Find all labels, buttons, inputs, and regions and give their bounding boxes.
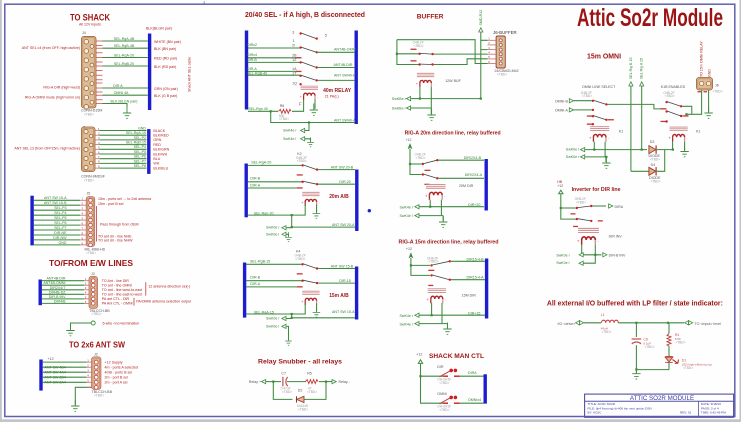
relay coil K1 coil left [589, 127, 610, 142]
svg-text:+12: +12 [416, 353, 422, 357]
wire buf arr r wire [411, 98, 420, 100]
svg-text:TO <input> level: TO <input> level [695, 322, 722, 326]
svg-text:BUFFER: BUFFER [417, 14, 444, 21]
connector J4 [82, 36, 97, 108]
svg-text:TO 15m OMNI RELAY: TO 15m OMNI RELAY [700, 41, 704, 77]
arrow omni b arr [569, 99, 573, 103]
svg-text:+12: +12 [557, 184, 563, 188]
svg-text:ANT SW 20-B: ANT SW 20-B [331, 165, 354, 169]
svg-text:SEL-P6: SEL-P6 [54, 221, 66, 225]
svg-text:K1: K1 [696, 130, 700, 134]
bus K2 left [244, 164, 247, 218]
switch contact omni sw1 [592, 100, 594, 102]
svg-text:TO ant - line east-to-west: TO ant - line east-to-west [102, 293, 142, 297]
svg-text:SwK4e r: SwK4e r [400, 314, 414, 318]
ground 20m gnd [439, 216, 447, 228]
J2 pin notes [105, 360, 139, 384]
svg-text:DIR INV: DIR INV [609, 235, 623, 239]
switch contact sw 2040 r3 [299, 75, 301, 77]
switch contact inv sw1 [576, 207, 578, 209]
wire inv rail [561, 194, 576, 219]
switch contact 20m sw2 [422, 173, 424, 175]
svg-text:J6: J6 [715, 83, 719, 87]
svg-text:20m A/B: 20m A/B [329, 194, 349, 200]
wire snub out [319, 381, 332, 383]
wire lp gnd stem [635, 369, 637, 372]
svg-text:<TBD>: <TBD> [297, 159, 307, 163]
LED D1 [665, 357, 673, 362]
svg-text:2m - port A sel: 2m - port A sel [105, 381, 128, 385]
contact stub K2 nc1 [297, 174, 303, 175]
wire 20m r1 wire [419, 206, 484, 208]
J2 gnd stub [87, 386, 92, 388]
contact stub K4 nc2 [297, 286, 303, 287]
switch contact inv sw2 [576, 218, 578, 220]
svg-text:SwK0e r: SwK0e r [556, 253, 570, 257]
J4 pin stubs [96, 41, 103, 104]
bus J5 left [30, 196, 33, 246]
svg-text:Shack ANT SEL cable: Shack ANT SEL cable [188, 57, 192, 92]
wire shack sw1 out [460, 375, 484, 377]
svg-text:SEL-P5: SEL-P5 [134, 150, 146, 154]
svg-text:DIR2X4/T: DIR2X4/T [50, 286, 67, 290]
contact stub 2040 r3 nc [296, 71, 302, 72]
svg-text:DIR: DIR [437, 365, 444, 369]
svg-text:<TBD>: <TBD> [665, 94, 675, 98]
ground gnd 2040b [307, 137, 314, 146]
io drive arrow [576, 321, 584, 325]
svg-text:ANT SEL c4 (from OFF, high=act: ANT SEL c4 (from OFF, high=active) [22, 46, 80, 50]
arrow sw l K2 [282, 232, 286, 236]
wire buf sw2 out [434, 59, 488, 65]
svg-text:SwKBe l: SwKBe l [392, 107, 406, 111]
bus shack man [484, 374, 487, 403]
svg-text:+12 Supply: +12 Supply [105, 360, 123, 364]
arrow inv dirb arr [603, 253, 607, 257]
wire DIR-A 2040 [248, 70, 300, 72]
arrow omni arr l [581, 148, 585, 152]
contact stub buf nc2 [411, 60, 417, 61]
svg-text:ANT SW40-A: ANT SW40-A [334, 118, 356, 122]
omni dot3 [592, 123, 594, 125]
relay coil K4 coil [301, 291, 320, 305]
svg-text:SEL-RgB-15: SEL-RgB-15 [126, 141, 146, 145]
svg-text:ANT SW 15-B: ANT SW 15-B [331, 264, 354, 268]
svg-text:DIR-B INV: DIR-B INV [609, 254, 626, 258]
svg-text:SEL-P3: SEL-P3 [54, 206, 66, 210]
wire 15m r1 wire [419, 314, 485, 316]
wire C6 bottom [635, 345, 637, 369]
svg-text:2I: 2I [292, 44, 295, 48]
svg-text:PA Ant CTL - OMNI: PA Ant CTL - OMNI [102, 301, 133, 305]
connector J6 omni [697, 78, 713, 91]
junction snub ja [272, 381, 274, 383]
svg-text:D3: D3 [650, 140, 655, 144]
wire inv coil right [594, 245, 596, 255]
switch contact omni sw2 [592, 115, 594, 117]
contact stub 15m nc2 [428, 285, 433, 286]
junction K2 ja [291, 214, 293, 216]
arrow omni arr r [581, 155, 585, 159]
svg-text:SEL-P4: SEL-P4 [54, 211, 66, 215]
wire k1b row1 [682, 106, 692, 114]
svg-text:Inverter for DIR line: Inverter for DIR line [572, 187, 621, 193]
connector J2 [92, 357, 101, 389]
contact stub K2 nc2 [297, 187, 303, 188]
ground K4 gnd [313, 307, 321, 318]
svg-text:<TBD>: <TBD> [92, 312, 102, 316]
svg-text:<TBD>: <TBD> [94, 393, 104, 397]
svg-text:WHITE (BN pair): WHITE (BN pair) [154, 40, 181, 44]
wire buf bottom [420, 98, 481, 100]
svg-text:2m - port B sel: 2m - port B sel [105, 375, 129, 379]
diode D2 [297, 396, 305, 402]
switch contact sw 2040 r1 [299, 46, 301, 48]
bus J3 left [39, 280, 42, 306]
svg-text:SEL-P8: SEL-P8 [134, 164, 146, 168]
wire 20m sw1 out [438, 159, 484, 161]
svg-text:SwK0e r: SwK0e r [566, 155, 580, 159]
arrow 20m arr l [415, 214, 419, 218]
svg-text:<TBD>: <TBD> [307, 390, 317, 394]
wire DIR-20 [318, 183, 355, 185]
wire 15m sw1 out [451, 260, 485, 262]
wire K1L right leg [604, 142, 607, 162]
svg-text:TO Ant - line DIR: TO Ant - line DIR [102, 279, 129, 283]
wire ANT SW 15-B [318, 268, 355, 270]
wire DIR-15 [318, 282, 355, 284]
svg-text:D2: D2 [298, 389, 303, 393]
svg-text:PA/OMNI antenna selection outp: PA/OMNI antenna selection output [136, 299, 191, 303]
J6-BUFFER pin stubs [488, 37, 497, 64]
svg-text:DIR-B: DIR-B [250, 276, 260, 280]
arrow omni a arr [569, 108, 573, 112]
svg-text:SMD-R12: SMD-R12 [479, 10, 483, 26]
wire D4 out [656, 150, 665, 172]
contact stub 20m nc2 [425, 184, 430, 185]
svg-text:ANT SW 4B4: ANT SW 4B4 [45, 365, 66, 369]
svg-text:DIR+20: DIR+20 [468, 203, 480, 207]
J1 pin stubs [95, 127, 100, 169]
junction K2 jb [291, 226, 293, 228]
wire K2 coil right gnd [316, 205, 318, 213]
wire swl2040 [305, 139, 311, 142]
wire K1L left leg [593, 142, 595, 150]
wire K4 r2 left [246, 280, 302, 282]
bus 2040 left [245, 31, 248, 110]
contact stub J6 stub2 [704, 91, 708, 92]
svg-text:15m OMNI: 15m OMNI [587, 54, 621, 61]
svg-text:ATTIC SO2R MODULE: ATTIC SO2R MODULE [630, 395, 694, 402]
svg-text:Relay +: Relay + [249, 380, 261, 384]
svg-text:TIME: 6:42:49 PM: TIME: 6:42:49 PM [701, 411, 726, 415]
wire snub in [266, 381, 281, 383]
wire swrK4 [286, 318, 292, 320]
svg-text:<TBD>: <TBD> [602, 330, 612, 334]
arrow sel b up [629, 82, 633, 86]
switch contact 20m sw1 [422, 163, 424, 165]
relay coil K1 coil right [668, 127, 688, 141]
resistor R6 [279, 109, 292, 113]
wire D4 wire [631, 170, 649, 172]
switch contact buf sw1 [418, 53, 420, 55]
arrow buf up [479, 28, 483, 32]
wire DIR-4 [248, 57, 300, 59]
io out arrow [685, 321, 693, 325]
svg-text:SEL Rig B 15: SEL Rig B 15 [629, 58, 633, 79]
svg-text:TO/FROM E/W LINES: TO/FROM E/W LINES [49, 259, 134, 268]
k1b dot3 [665, 120, 667, 122]
wire K4 coil right gnd [316, 303, 318, 311]
wire 15m sw2 out [451, 279, 485, 281]
arrow inv arr r [579, 253, 583, 257]
junction inv j1 [560, 207, 562, 209]
svg-text:DIR-NW: DIR-NW [53, 236, 67, 240]
wire 15m arr l wire [419, 323, 448, 325]
contact stub inv nc1 [571, 213, 576, 214]
arrow relay minus arrow [332, 380, 336, 384]
svg-text:SwK4e r: SwK4e r [283, 129, 297, 133]
wire shack rail [421, 364, 444, 403]
svg-text:Pass through from OEM: Pass through from OEM [100, 222, 139, 226]
svg-text:<TBD>: <TBD> [439, 381, 449, 385]
arrow buf arr l [406, 106, 410, 110]
svg-text:TO ant - line west-to-east: TO ant - line west-to-east [102, 288, 142, 292]
pushbutton DIR [444, 376, 449, 377]
svg-text:ANT4B-OMNI: ANT4B-OMNI [43, 281, 65, 285]
svg-text:All 12V inputs: All 12V inputs [79, 23, 101, 27]
svg-text:DIRA: DIRA [468, 371, 477, 375]
wire DIR-B 2040 [248, 61, 300, 63]
ground termination gnd [66, 324, 74, 336]
junction K4 ja [291, 313, 293, 315]
power +12 shack [418, 360, 422, 364]
diode D3 [649, 145, 656, 153]
wire K4 bottom [292, 314, 355, 318]
junction buf j1 [396, 53, 398, 55]
wire lp in [584, 322, 601, 324]
svg-text:BLK (RD pair): BLK (RD pair) [154, 65, 176, 69]
svg-text:DIR-NE: DIR-NE [54, 231, 67, 235]
wire ANT4B-OMNI [318, 51, 355, 53]
svg-text:SEL-P4: SEL-P4 [134, 145, 146, 149]
wire 20m rail [410, 149, 422, 175]
svg-text:SEL-RgA-20: SEL-RgA-20 [251, 160, 271, 164]
svg-text:<TBD>: <TBD> [651, 179, 661, 183]
svg-text:SHACK MAN CTL: SHACK MAN CTL [429, 353, 484, 360]
svg-text:<TBD>: <TBD> [84, 179, 94, 183]
junction inv j2 [594, 254, 596, 256]
wire omni swr wire [585, 156, 607, 158]
svg-text:DIR-A: DIR-A [250, 183, 260, 187]
wire omni swl wire [585, 149, 647, 151]
J2 wire labels [45, 365, 66, 384]
relay coil K2 coil [301, 192, 320, 206]
wire snub loop [273, 382, 326, 400]
wire D1 bottom [636, 362, 669, 369]
svg-text:SEL-RgB-20: SEL-RgB-20 [114, 62, 134, 66]
svg-text:2B: 2B [292, 54, 297, 58]
junction shack j1 [419, 375, 421, 377]
resistor R5 [305, 380, 318, 384]
svg-text:<TBD>: <TBD> [414, 44, 424, 48]
contact stub omni nc1 [587, 115, 593, 116]
arrow 20m arr r [415, 205, 419, 209]
svg-text:DIR-A: DIR-A [247, 67, 257, 71]
wire SEL Rig A 15 wire [641, 86, 643, 150]
resistor R4 [667, 334, 671, 347]
junction snub jb [325, 381, 327, 383]
svg-text:K1: K1 [619, 130, 623, 134]
relay coil K1 2040 [300, 86, 319, 100]
wire SEL-RgB-40 [248, 74, 300, 76]
svg-text:GRN: GRN [153, 138, 161, 142]
svg-text:<TBD>: <TBD> [439, 408, 449, 412]
svg-text:C7: C7 [281, 372, 286, 376]
bus 2040 right [355, 31, 358, 125]
svg-text:BLU: BLU [153, 157, 160, 161]
wire ANT4B-DIR [318, 67, 355, 69]
svg-text:DIRx4: DIRx4 [247, 53, 257, 57]
svg-text:+12: +12 [406, 247, 412, 251]
ground J4 shield [123, 107, 131, 119]
J3 pin notes [102, 279, 142, 305]
wire snub mid [287, 381, 306, 383]
svg-text:PA ant CTL - DIR: PA ant CTL - DIR [102, 297, 130, 301]
ground K2 gnd2 [285, 232, 292, 241]
svg-text:TO ant dir - rlse NHE: TO ant dir - rlse NHE [98, 234, 132, 238]
switch contact sw 2040 r2 [299, 61, 301, 63]
bracket J5 [96, 206, 98, 242]
wire swrK2 [286, 227, 292, 229]
wire J6 pin1 down [686, 90, 701, 114]
contact stub inv nc2 [598, 220, 603, 221]
bracket pa omni [133, 298, 135, 306]
wires bus to J5 [34, 197, 86, 246]
ground J2 gnd [71, 400, 79, 412]
svg-text:ANT4B-OMNI: ANT4B-OMNI [334, 48, 356, 52]
power +12 up 20m [408, 144, 412, 149]
svg-text:DIRx2: DIRx2 [247, 43, 257, 47]
svg-text:SEL-RgA-20: SEL-RgA-20 [114, 53, 134, 57]
svg-text:SwK0e r: SwK0e r [266, 226, 280, 230]
svg-text:BY: AC0C: BY: AC0C [588, 411, 603, 415]
wire K2 coil left [248, 205, 305, 216]
wire D3 out [656, 149, 673, 151]
wire 15m coil right [442, 303, 448, 328]
svg-text:OMNI 4A: OMNI 4A [114, 91, 129, 95]
wire K2 bottom [292, 215, 356, 227]
svg-text:GND: GND [138, 126, 146, 130]
svg-text:15m A/B: 15m A/B [329, 293, 349, 299]
svg-text:All external I/O buffered with: All external I/O buffered with LP filter… [547, 301, 723, 308]
wire inv arr l wire [583, 255, 595, 263]
wire 20m coil left [429, 200, 431, 207]
title block frame [585, 394, 734, 417]
connector J1 [82, 127, 96, 172]
svg-text:<TBD>: <TBD> [713, 90, 723, 94]
wire J2 gnd wire [75, 387, 91, 405]
junction lp j1 [635, 322, 637, 324]
wire K1R left leg [672, 142, 674, 150]
contact stub omni nc3 [587, 124, 593, 125]
relay coil 20m coil [425, 184, 446, 199]
svg-text:ANT SW40-B: ANT SW40-B [334, 74, 356, 78]
svg-text:<TBD>: <TBD> [582, 94, 592, 98]
svg-text:ANT SW 4A4: ANT SW 4A4 [45, 370, 66, 374]
svg-text:DIRA: DIRA [615, 205, 624, 209]
junction omni jd [605, 156, 607, 158]
svg-text:ANT SW 20-A: ANT SW 20-A [332, 223, 355, 227]
svg-text:BLK (G B pair): BLK (G B pair) [154, 94, 177, 98]
wire shack sw2 out [460, 402, 484, 404]
wire 20m sw1 in [410, 163, 422, 165]
svg-text:RIG-A DIR (high=west): RIG-A DIR (high=west) [43, 86, 80, 90]
arrow relay plus arrow [262, 380, 266, 384]
junction k1b j0 [685, 113, 687, 115]
inductor L1 [602, 320, 619, 323]
svg-text:Relay Snubber - all relays: Relay Snubber - all relays [258, 359, 342, 366]
svg-text:J4: J4 [82, 31, 86, 35]
J1 wire labels [126, 126, 147, 168]
svg-text:F: F [299, 102, 302, 107]
bus K2 right [355, 170, 358, 232]
svg-text:SEL-P7: SEL-P7 [134, 159, 146, 163]
svg-text:ANT4B-DIR: ANT4B-DIR [47, 277, 66, 281]
svg-text:<TBD>: <TBD> [676, 341, 686, 345]
svg-text:SwK4e l: SwK4e l [400, 322, 413, 326]
junction buf j2 [480, 98, 482, 100]
junction K1L ja [593, 149, 595, 151]
wire swlK2 [286, 234, 289, 236]
J6 omni pins [699, 81, 703, 85]
wire buf sw1 in [397, 53, 419, 55]
arrow 15m arr r [415, 313, 419, 317]
svg-text:DIR-15: DIR-15 [339, 279, 350, 283]
svg-text:<TBD>: <TBD> [282, 390, 292, 394]
svg-text:DIR/2X4-A: DIR/2X4-A [465, 173, 483, 177]
svg-text:J3: J3 [91, 272, 95, 276]
junction lp j2 [667, 322, 669, 324]
svg-text:OMNI: OMNI [437, 392, 446, 396]
svg-text:R6: R6 [280, 104, 285, 108]
svg-text:REV: 01: REV: 01 [680, 411, 692, 415]
svg-text:5: 5 [325, 34, 327, 38]
svg-text:BLK/GRN: BLK/GRN [153, 148, 169, 152]
svg-text:20/40 SEL - if A high, B disc: 20/40 SEL - if A high, B disconnected [245, 10, 365, 19]
contact stub k1b nc1 [661, 108, 667, 109]
wire DIR-2 [248, 47, 300, 49]
junction lp j3 [635, 368, 637, 370]
wire SEL-RgB-4B [103, 47, 148, 49]
contact stub 20m nc1 [425, 170, 431, 171]
connector J5 [86, 197, 95, 247]
no-connect circle [91, 321, 95, 325]
svg-text:<TBD>: <TBD> [298, 408, 308, 412]
wire swr2040 [305, 123, 309, 131]
svg-text:ANT4B-DIR: ANT4B-DIR [334, 63, 353, 67]
svg-text:DIR-B INV: DIR-B INV [49, 295, 66, 299]
arrow sw l K4 [282, 324, 286, 328]
contact stub J6 stub1 [698, 91, 702, 92]
switch contact 15m sw2 [430, 274, 432, 276]
svg-text:DIR-A: DIR-A [250, 282, 260, 286]
wire SEL-Rgn40 wire [248, 110, 278, 112]
wire buf top [397, 32, 488, 99]
ground omni gnd l [602, 157, 610, 169]
svg-text:DIR-B: DIR-B [247, 58, 257, 62]
wire ANT SW40-B [318, 79, 355, 81]
